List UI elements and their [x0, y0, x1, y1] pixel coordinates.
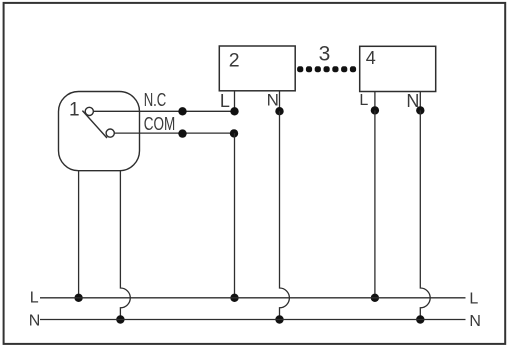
junction dot N.C wire	[178, 107, 186, 115]
unit 2 terminal dot L	[230, 107, 238, 115]
wireless link 3 (dotted)	[297, 66, 356, 72]
receiver unit 4 body	[360, 46, 436, 91]
wire switch left leg to L rail	[78, 170, 80, 298]
switch contact N.C (pivot)	[85, 107, 93, 115]
svg-text:N: N	[29, 313, 41, 330]
unit 2 terminal dot N	[275, 107, 283, 115]
svg-text:N.C: N.C	[144, 89, 167, 110]
wire N.C contact to receiver 2 L terminal	[93, 110, 234, 112]
N rail	[40, 319, 466, 321]
wire COM contact to L feed	[114, 132, 234, 134]
unit 4 terminal dot N	[416, 106, 424, 114]
unit 2 terminal stub N	[279, 91, 281, 111]
svg-text:3: 3	[319, 42, 331, 65]
wire unit 4 L to L rail	[374, 110, 376, 297]
svg-text:1: 1	[69, 100, 80, 121]
L rail	[40, 297, 466, 299]
unit 4 terminal stub L	[374, 92, 376, 111]
svg-text:2: 2	[229, 49, 240, 71]
svg-text:L: L	[469, 290, 478, 307]
wire COM feed down to L rail	[234, 133, 236, 298]
wire unit 2 N to N rail (hops over L)	[280, 111, 290, 319]
unit 2 terminal stub L	[234, 91, 236, 112]
junction dot unit 2 N on N rail	[275, 315, 283, 323]
svg-text:4: 4	[366, 48, 376, 68]
svg-text:N: N	[469, 313, 481, 330]
switch lever	[82, 111, 107, 138]
unit 4 terminal dot L	[371, 106, 379, 114]
thermostat switch body (component 1)	[59, 92, 140, 171]
svg-text:L: L	[220, 91, 230, 111]
svg-text:L: L	[359, 92, 368, 109]
svg-text:COM: COM	[144, 113, 176, 134]
junction dot COM wire	[178, 129, 186, 137]
wire switch right leg to N rail (hops over L)	[120, 170, 130, 320]
svg-text:N: N	[267, 91, 279, 110]
junction dot right leg on N rail	[116, 315, 124, 323]
junction dot COM wire to L-feed drop	[230, 129, 238, 137]
wire unit 4 N to N rail (hops over L)	[420, 110, 430, 319]
switch contact COM	[106, 129, 114, 137]
svg-text:L: L	[30, 289, 39, 306]
junction dot COM feed on L rail	[230, 294, 238, 302]
receiver unit 2 body	[219, 46, 295, 91]
junction dot left leg on L rail	[74, 294, 82, 302]
junction dot unit 4 N on N rail	[416, 315, 424, 323]
unit 4 terminal stub N	[419, 92, 421, 111]
junction dot unit 4 L on L rail	[371, 294, 379, 302]
